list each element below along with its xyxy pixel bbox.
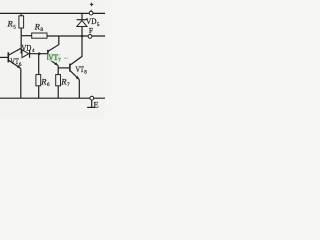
resistor R7: [56, 75, 61, 86]
green artifact marks: [64, 58, 66, 59]
wire VT8 collector vertical: [70, 36, 82, 65]
transistor VT8: [69, 64, 71, 72]
wire VT8 emitter diagonal: [70, 71, 79, 80]
wire VT7 emitter diagonal: [48, 59, 58, 66]
svg-text:8: 8: [40, 27, 43, 33]
wire VD5 cathode vertical: [81, 13, 83, 19]
wire E terminal stub: [91, 100, 93, 107]
wire VT7 emitter vertical to R7 and rail: [57, 66, 59, 99]
wire VT6 collector diagonal: [9, 48, 22, 55]
svg-text:F: F: [89, 27, 93, 35]
svg-text:VT: VT: [48, 53, 58, 62]
wire R5 branch vertical (rail to VD4 anode): [20, 13, 22, 53]
node junction R6/VD4: [38, 52, 41, 55]
svg-text:6: 6: [47, 82, 50, 88]
svg-text:VT: VT: [10, 57, 18, 66]
transistor VT6 emitter arrow: [17, 65, 21, 69]
svg-text:VD: VD: [21, 44, 31, 53]
diode VD5: [77, 20, 87, 27]
wire VT8 emitter vertical: [78, 80, 80, 99]
resistor R6: [36, 75, 41, 86]
svg-text:7: 7: [67, 82, 70, 88]
svg-text:5: 5: [97, 22, 100, 28]
transistor VT7 emitter arrow: [54, 62, 58, 66]
wire F output line: [47, 35, 105, 37]
terminal + (positive): [89, 11, 93, 15]
resistor R5: [19, 16, 24, 28]
wire VD4 cathode to VT7 base: [30, 53, 48, 55]
terminal F: [88, 35, 92, 39]
wire VT7 collector vertical: [48, 36, 59, 51]
node junction VD5/VT8/F: [81, 35, 84, 38]
wire VT8 base: [58, 67, 70, 69]
wire top supply rail: [0, 12, 105, 14]
wire VT6 emitter vertical: [20, 68, 22, 98]
transistor VT8 emitter arrow: [76, 76, 80, 80]
wire bottom rail: [0, 97, 105, 99]
wire VT6 emitter diagonal: [9, 60, 21, 68]
resistor R8: [32, 33, 47, 38]
svg-text:VD: VD: [86, 17, 97, 26]
wire R6 branch vertical: [38, 54, 40, 98]
wire R8 left lead: [21, 35, 32, 37]
transistor VT6: [7, 52, 9, 62]
diode VD4: [22, 50, 30, 58]
wire VT6 base lead: [0, 56, 8, 58]
svg-text:5: 5: [13, 24, 16, 30]
transistor VT7: [47, 50, 49, 60]
wire VD5 anode vertical: [81, 27, 83, 37]
terminal E: [90, 96, 94, 100]
svg-text:E: E: [94, 101, 99, 110]
svg-text:VT: VT: [76, 65, 85, 74]
label VT7 green halo: [48, 54, 61, 62]
